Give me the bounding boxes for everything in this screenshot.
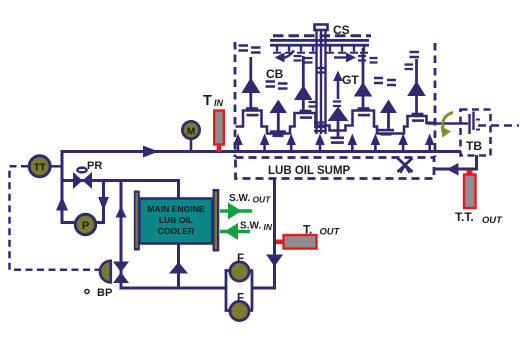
label PR (87, 160, 102, 172)
wire: filter outlet line to bypass riser (120, 287, 227, 290)
label CS (333, 23, 350, 37)
temperature transmitter TT (29, 156, 50, 177)
svg-text:T: T (203, 93, 212, 109)
flow arrow up on bypass riser (116, 206, 127, 218)
label TB (466, 139, 482, 153)
olive curved arrow at TB (441, 113, 454, 138)
bearing cap pedestal 4 (412, 113, 425, 122)
svg-text:TT: TT (34, 163, 46, 174)
svg-text:CB: CB (266, 67, 284, 81)
thermometer T IN (214, 111, 224, 153)
svg-text:T.: T. (303, 223, 312, 237)
sump X-valve (398, 158, 413, 173)
crosshead bearing unit CB2 (378, 100, 397, 136)
wire: BP riser (cooler bypass) (120, 179, 123, 289)
wire: TT gauge branch (50, 165, 63, 168)
valve PR (pressure regulating) (73, 166, 92, 189)
valve BP (bypass) (113, 262, 129, 284)
spray marks under CB label (266, 82, 288, 89)
filter F1 (230, 262, 249, 281)
cooler left end plate (134, 191, 140, 251)
BP valve actuator half-disc (100, 261, 111, 283)
pump P (75, 214, 95, 234)
svg-text:LUB OIL: LUB OIL (159, 215, 193, 225)
wire: left riser (pump discharge) (61, 150, 64, 223)
LUB OIL SUMP dashed tank (236, 158, 435, 179)
cooler right end plate (213, 189, 220, 252)
crankshaft left throw arrow (275, 51, 295, 63)
bearing cap pedestal 3 (358, 107, 371, 116)
thrust bearing TB dashed box (461, 110, 491, 156)
wire: main lub oil supply rail (62, 150, 461, 153)
guide GT arrow (333, 71, 343, 100)
wire: PR / cooler top line (62, 179, 180, 182)
dashed shaft line to right edge (478, 124, 519, 127)
svg-text:F: F (237, 293, 244, 305)
label F1 (237, 253, 244, 265)
crankshaft right throw arrow (334, 53, 356, 63)
pressure gauge M (182, 121, 199, 152)
wire: drain to filters (252, 287, 276, 290)
wire: cooler bottom pipe (177, 244, 180, 288)
flow arrow down on drain (266, 255, 283, 267)
svg-text:IN: IN (264, 222, 273, 232)
label T. OUT (303, 223, 341, 237)
marks on crankshaft column top (316, 68, 325, 73)
svg-text:COOLER: COOLER (158, 226, 196, 236)
cylinder stem 2 (294, 56, 313, 113)
flow arrow down to pump (98, 197, 109, 211)
svg-text:IN: IN (214, 98, 224, 108)
filter frame (225, 271, 254, 311)
label LUB OIL SUMP (268, 165, 351, 177)
wire: thrust bearing supply line (427, 122, 469, 125)
label S.W. OUT (229, 193, 271, 205)
svg-text:TB: TB (466, 139, 482, 153)
spray marks above stem 1 (239, 46, 261, 53)
cylinder stem 3 (354, 48, 373, 111)
label S.W. IN (240, 221, 273, 233)
wire: TB drain to sump (435, 168, 478, 171)
svg-text:P: P (82, 220, 89, 232)
spray marks right of right arrow (358, 56, 378, 63)
spray marks left of CB2 (374, 78, 396, 85)
crankshaft horizontal bar (270, 39, 369, 47)
spray marks under GT (333, 102, 341, 107)
spray marks left of crankshaft column (309, 102, 317, 107)
cylinder stem 1 (242, 57, 261, 111)
flow arrow up on left riser (56, 197, 68, 211)
svg-text:S.W.: S.W. (229, 193, 250, 204)
engine crankcase dashed left edge (234, 42, 237, 157)
svg-text:OUT: OUT (253, 195, 272, 205)
bearing cap pedestal 1 (246, 107, 259, 116)
label F2 (237, 293, 244, 305)
svg-text:MAIN ENGINE: MAIN ENGINE (147, 204, 205, 214)
svg-text:PR: PR (87, 160, 102, 172)
wire: pump suction bottom line (61, 221, 106, 224)
thrust bearing plates (470, 112, 481, 135)
bearing feed arrows from rail (233, 134, 434, 152)
main bearing skyline (236, 111, 435, 134)
wire: cooler top pipe (177, 180, 180, 200)
label GT (342, 73, 359, 87)
flow arrow up into cooler (169, 262, 188, 274)
cylinder stem 4 (407, 59, 426, 116)
svg-text:OUT: OUT (482, 214, 503, 225)
S.W. IN sea water line (220, 223, 250, 240)
label T IN (203, 93, 224, 109)
thermometer T.T. OUT (464, 170, 476, 208)
ticks below crankshaft bar (273, 47, 368, 53)
svg-text:F: F (237, 253, 244, 265)
filter F2 (230, 301, 249, 320)
flow arrow on supply rail (143, 146, 159, 158)
crosshead bearing unit CB1 (270, 100, 288, 138)
spray marks right of left arrow (294, 56, 313, 63)
label CB (266, 67, 284, 81)
svg-text:LUB OIL SUMP: LUB OIL SUMP (268, 165, 351, 177)
engine crankcase dashed right edge (434, 43, 437, 157)
crosshead unit over crank (big arrow) (328, 107, 349, 138)
thermometer T. OUT (276, 235, 317, 249)
crankshaft vertical column (317, 30, 326, 134)
svg-text:GT: GT (342, 73, 359, 87)
cooler body (MAIN ENGINE LUB OIL COOLER) (140, 199, 213, 244)
svg-text:OUT: OUT (320, 226, 341, 237)
bearing cap pedestal 2 (300, 110, 313, 119)
junction dot near BP (85, 289, 89, 293)
wire: TB drain drop (475, 155, 478, 171)
svg-text:T.T.: T.T. (455, 210, 474, 224)
guide shoe foot bars (331, 137, 345, 144)
crankshaft top cap (315, 25, 328, 31)
svg-text:M: M (187, 127, 195, 138)
dashed control line TT to BP (10, 166, 100, 269)
svg-text:S.W.: S.W. (240, 221, 261, 232)
flow arrow left into sump (447, 163, 459, 176)
label T.T. OUT (455, 210, 503, 225)
wire: sump drain line (273, 178, 276, 290)
label BP (97, 287, 112, 299)
crankshaft column rungs (314, 123, 327, 132)
S.W. OUT sea water line (220, 203, 252, 220)
wire: right drop to pump (102, 179, 105, 223)
spray marks above stem 4 (405, 52, 420, 69)
svg-text:BP: BP (97, 287, 112, 299)
dashes above crankshaft bar (273, 34, 371, 37)
